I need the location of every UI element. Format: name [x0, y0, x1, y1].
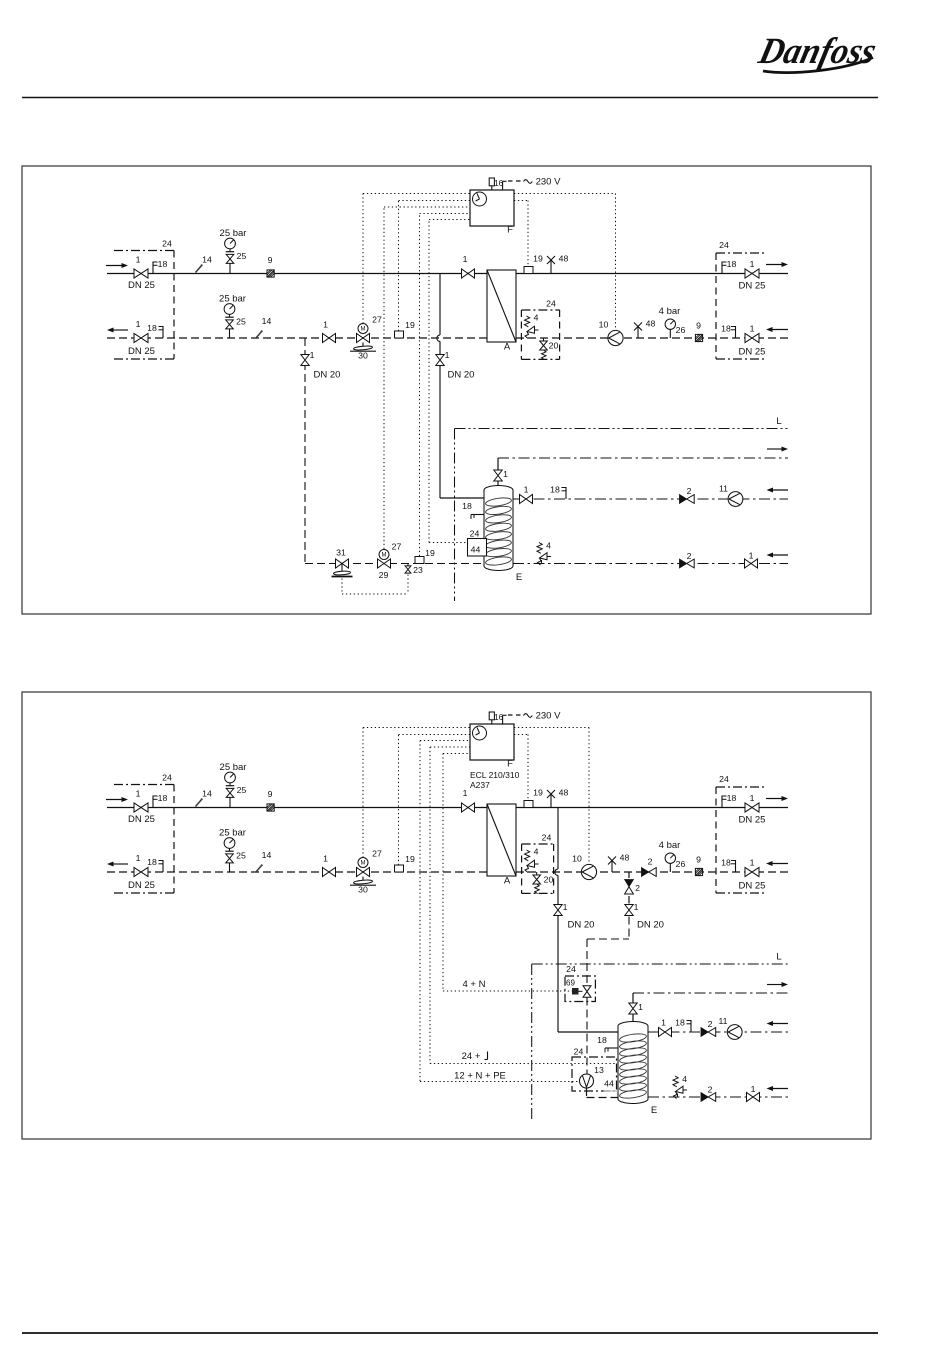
svg-text:69: 69 [566, 979, 575, 988]
svg-text:14: 14 [262, 850, 272, 860]
svg-text:48: 48 [620, 853, 630, 863]
svg-text:M: M [382, 553, 387, 559]
wire branch DN20 on return going down (dashed) [304, 338, 306, 564]
wire return pipe to district heating (dashed) [107, 337, 487, 339]
svg-text:A: A [504, 342, 511, 353]
wire controller to sensor 19 supply [514, 734, 528, 736]
sensor box 44 in tank [468, 539, 487, 557]
sensor 18 well on return (left) [162, 860, 164, 872]
svg-text:14: 14 [202, 255, 212, 265]
svg-text:12 + N + PE: 12 + N + PE [454, 1071, 506, 1082]
sensor 18 well on return (left) [162, 326, 164, 338]
svg-text:1: 1 [563, 902, 568, 912]
valve 1 DN 20 on return branch [301, 355, 309, 366]
svg-text:24: 24 [162, 239, 172, 249]
wire DHW circulation line (dash-dot) [648, 1031, 788, 1033]
mains connection bracket [502, 181, 504, 190]
pressure gauge 25 bar on return [224, 304, 235, 315]
svg-text:1: 1 [750, 324, 755, 334]
flow arrow circulation in [772, 1023, 789, 1025]
svg-text:9: 9 [268, 255, 273, 265]
svg-text:18: 18 [597, 1035, 607, 1045]
valve 1 on circulation [659, 1028, 672, 1037]
pressure gauge 26 4 bar on return [665, 853, 675, 863]
boundary box 24 right (dash-dot) [716, 252, 766, 254]
sensor 19 on return [395, 331, 404, 338]
valve 1 on circulation [520, 495, 533, 504]
motorised valve 27 on return [357, 868, 370, 877]
air vent 48 on return [611, 861, 613, 873]
sensor 18 well on supply (left) [152, 262, 154, 274]
svg-text:A: A [504, 876, 511, 887]
svg-text:A237: A237 [470, 780, 490, 790]
svg-text:1: 1 [661, 1018, 666, 1028]
wire return pipe after heat exchanger (dashed) [516, 337, 788, 339]
svg-text:10: 10 [599, 320, 609, 330]
svg-text:14: 14 [202, 789, 212, 799]
svg-text:DN 25: DN 25 [739, 347, 766, 358]
svg-text:19: 19 [405, 320, 415, 330]
wire supply pipe from district heating (flow) [107, 807, 487, 809]
svg-text:Danfoss: Danfoss [754, 30, 880, 71]
boundary box 24 right (dash-dot) [716, 786, 766, 788]
svg-text:1: 1 [323, 320, 328, 330]
wire controller to motor valve 29 [383, 207, 385, 549]
wire controller to motor valve 27 [362, 194, 364, 324]
boundary box 24 with thermostat 69 (dash-dot) [565, 976, 595, 1002]
flow arrow into return (right) [771, 863, 788, 865]
valve 1 return DN 25 (right) [745, 867, 759, 876]
wire supply pipe after heat exchanger [516, 807, 788, 809]
sensor 18 well on circulation [690, 1020, 692, 1032]
svg-text:2: 2 [708, 1085, 713, 1095]
filter 9 on return [695, 334, 702, 341]
svg-text:1: 1 [750, 858, 755, 868]
svg-text:27: 27 [372, 849, 382, 859]
svg-text:ECL 210/310: ECL 210/310 [470, 770, 520, 780]
svg-text:2: 2 [687, 551, 692, 561]
outdoor sensor 16 on controller [489, 178, 494, 186]
svg-text:24: 24 [719, 774, 729, 784]
svg-text:24: 24 [542, 833, 552, 843]
controller F (ECL regulator) [470, 190, 514, 226]
valve 1 on return (mid) [323, 334, 336, 343]
wire supply pipe after heat exchanger [516, 273, 788, 275]
sensor 18 well on return (right) [735, 860, 737, 872]
svg-text:24: 24 [470, 529, 480, 539]
Danfoss logo [754, 30, 880, 72]
svg-text:24: 24 [574, 1047, 584, 1057]
thermostat 69 [572, 988, 579, 995]
svg-text:26: 26 [676, 859, 686, 869]
svg-text:1: 1 [634, 902, 639, 912]
svg-text:E: E [651, 1105, 657, 1116]
valve 1 on cold water [747, 1093, 760, 1102]
node insulation mark 14 on supply [196, 265, 203, 273]
valve 1 return DN 25 (right) [745, 333, 759, 342]
drain cock 23 [407, 564, 409, 567]
relief valve 20 below return [536, 872, 538, 875]
wire controller to sensor 19 supply [514, 200, 528, 202]
filter 9 on supply [267, 804, 274, 811]
flow direction arrow out of return [112, 329, 128, 331]
wire dashed 230V supply [508, 714, 522, 716]
wire controller to pump 10 [514, 727, 589, 729]
svg-text:4: 4 [546, 541, 551, 551]
svg-text:13: 13 [594, 1065, 604, 1075]
svg-text:DN 25: DN 25 [128, 280, 155, 291]
svg-text:DN 25: DN 25 [739, 815, 766, 826]
svg-text:230 V: 230 V [536, 177, 561, 188]
boundary box 24 around safety valves (dash-dot) [522, 843, 554, 845]
wire capillary between 31 and 23 (dotted) [341, 579, 343, 595]
top rule [22, 97, 878, 99]
svg-text:25: 25 [236, 851, 246, 861]
pump 10 circulation pump on return [608, 330, 623, 345]
valve 1 on tank top [494, 470, 502, 481]
sensor 18 well on return (right) [735, 326, 737, 338]
wire tank top connection [497, 458, 499, 471]
svg-text:18: 18 [675, 1018, 685, 1028]
svg-text:11: 11 [718, 1016, 727, 1026]
check valve 2 on return [642, 868, 649, 877]
svg-text:1: 1 [463, 254, 468, 264]
sensor 18 pocket on tank [605, 1047, 618, 1049]
svg-text:20: 20 [549, 341, 559, 351]
svg-text:48: 48 [559, 788, 569, 798]
boundary box 24 around charging pump (dash-dot) [572, 1057, 617, 1091]
drain valve 31 [336, 559, 349, 568]
svg-text:18: 18 [727, 793, 737, 803]
pump 10 circulation pump on return [581, 864, 596, 879]
air vent 48 on supply [550, 260, 552, 274]
svg-text:25 bar: 25 bar [220, 762, 247, 773]
node insulation mark 14 on return [256, 331, 263, 339]
flow arrow out of supply (right) [766, 264, 783, 266]
motorised valve 29 on coil return [378, 559, 391, 568]
svg-text:4 bar: 4 bar [659, 306, 681, 317]
svg-text:18: 18 [721, 858, 731, 868]
svg-text:1: 1 [524, 485, 529, 495]
svg-text:1: 1 [136, 789, 141, 799]
wire controller to thermostat 69 (4+N) [443, 753, 470, 755]
storage tank E with heating coil [618, 1022, 648, 1104]
wire cold water line right of tank (dash-dot) [513, 563, 788, 565]
storage tank E with heating coil [484, 486, 513, 571]
sensor 19 on supply [524, 267, 533, 274]
svg-text:30: 30 [358, 885, 368, 895]
safety temperature monitor 30 below valve 27 [362, 877, 364, 881]
safety temperature monitor 30 below valve 27 [362, 343, 364, 347]
safety valve 4 on cold water [537, 543, 542, 554]
wire controller to motor valve 27 [362, 728, 364, 858]
flow arrow out of supply (right) [766, 798, 783, 800]
wire return pipe after heat exchanger (dashed) [516, 871, 788, 873]
check valve 2 on circulation [701, 1028, 708, 1037]
svg-text:1: 1 [749, 551, 754, 561]
svg-text:DN 25: DN 25 [739, 281, 766, 292]
svg-text:2: 2 [635, 883, 640, 893]
svg-text:19: 19 [533, 788, 543, 798]
svg-text:4: 4 [534, 847, 539, 857]
wire cold water line (dash-dot) [648, 1096, 788, 1098]
pump 13 charging pump [580, 1074, 594, 1088]
safety valve 4 in box [525, 316, 530, 327]
valve 1 on cold water [745, 559, 758, 568]
svg-text:1: 1 [310, 350, 315, 360]
svg-text:F: F [507, 225, 513, 236]
svg-text:19: 19 [425, 548, 435, 558]
flow arrow DHW out [767, 984, 783, 986]
svg-text:4: 4 [534, 313, 539, 323]
svg-text:1: 1 [750, 259, 755, 269]
wire controller to tank sensor 44 [428, 220, 430, 543]
node system limit L line (dash-dot-dot) [455, 428, 789, 430]
safety valve 4 in box [525, 850, 530, 861]
wire DHW flow line (dash-dot) [498, 457, 788, 459]
wire DHW flow line (dash-dot) [633, 992, 788, 994]
svg-text:1: 1 [638, 1002, 643, 1012]
svg-text:DN 25: DN 25 [739, 881, 766, 892]
flow direction arrow out of return [112, 863, 128, 865]
sensor 18 pocket on tank [471, 514, 484, 516]
pressure gauge 25 bar on return [224, 838, 235, 849]
wire charging return branch (dashed) [628, 872, 630, 878]
AC symbol [524, 714, 533, 718]
svg-text:1: 1 [323, 854, 328, 864]
wire DHW circulation line (dash-dot) [513, 498, 788, 500]
svg-text:25: 25 [236, 317, 246, 327]
svg-text:1: 1 [136, 255, 141, 265]
svg-text:23: 23 [413, 565, 423, 575]
valve 1 on supply before exchanger [462, 803, 475, 812]
flow direction arrow into supply [106, 265, 123, 267]
svg-text:1: 1 [503, 469, 508, 479]
pump 11 circulation pump [728, 492, 743, 507]
svg-text:48: 48 [559, 254, 569, 264]
wire controller to sensor 19 return [398, 201, 400, 332]
svg-text:9: 9 [268, 789, 273, 799]
svg-text:4 bar: 4 bar [659, 840, 681, 851]
valve 1 DN 20 on tank feed [436, 355, 444, 366]
svg-text:25: 25 [237, 785, 247, 795]
svg-text:11: 11 [719, 484, 728, 494]
wire dashed 230V supply [508, 180, 522, 182]
svg-text:M: M [361, 327, 366, 333]
frame box diagram 1 [22, 166, 871, 614]
svg-text:2: 2 [648, 857, 653, 867]
pressure gauge 25 bar on supply [225, 238, 236, 249]
wire controller to sensor 44 (24+earth) [430, 746, 470, 748]
svg-text:27: 27 [392, 542, 402, 552]
svg-text:25 bar: 25 bar [219, 294, 246, 305]
svg-text:1: 1 [445, 350, 450, 360]
svg-text:18: 18 [721, 324, 731, 334]
valve 1 return DN 25 (left) [134, 867, 148, 876]
svg-text:4 + N: 4 + N [463, 979, 486, 990]
svg-text:24: 24 [566, 964, 576, 974]
svg-text:30: 30 [358, 351, 368, 361]
svg-text:18: 18 [147, 323, 157, 333]
sensor 18 well on supply (right) [721, 796, 723, 808]
svg-text:19: 19 [405, 854, 415, 864]
svg-text:18: 18 [550, 485, 560, 495]
svg-text:29: 29 [379, 570, 389, 580]
svg-text:26: 26 [676, 325, 686, 335]
valve 1 DN 20 on charging feed [554, 905, 562, 916]
wire controller to pump 10 [514, 193, 616, 195]
node system limit L line (dash-dot-dot) [532, 963, 788, 965]
check valve 2 on cold water [680, 559, 687, 568]
svg-text:10: 10 [572, 854, 582, 864]
air vent 48 on return [637, 327, 639, 339]
wire pump 13 to tank bottom (dashed) [586, 1088, 588, 1098]
heat exchanger A [487, 804, 516, 876]
node insulation mark 14 on return [256, 865, 263, 873]
svg-text:1: 1 [136, 853, 141, 863]
filter 9 on supply [267, 270, 274, 277]
svg-text:DN 20: DN 20 [314, 370, 341, 381]
svg-text:24: 24 [546, 299, 556, 309]
flow arrow circulation in [772, 489, 789, 491]
svg-text:18: 18 [158, 259, 168, 269]
svg-text:L: L [776, 952, 781, 963]
sensor 18 well on supply (left) [152, 796, 154, 808]
svg-text:DN 20: DN 20 [448, 370, 475, 381]
svg-text:E: E [516, 572, 522, 583]
wire tank top connection [632, 993, 634, 1004]
valve 1 DN 20 on charging return [625, 905, 633, 916]
bottom rule [22, 1332, 878, 1334]
pump 11 circulation pump [727, 1025, 742, 1040]
svg-text:9: 9 [696, 321, 701, 331]
svg-text:20: 20 [544, 875, 554, 885]
controller F (ECL regulator) [470, 724, 514, 760]
valve 1 supply DN 25 (left) [134, 803, 148, 812]
svg-text:2: 2 [708, 1019, 713, 1029]
svg-text:M: M [361, 861, 366, 867]
svg-text:DN 25: DN 25 [128, 880, 155, 891]
valve 1 supply DN 25 (right) [745, 269, 759, 278]
valve 1 supply DN 25 (right) [745, 803, 759, 812]
pressure gauge 26 4 bar on return [665, 319, 675, 329]
svg-text:44: 44 [604, 1079, 614, 1089]
svg-text:25: 25 [237, 251, 247, 261]
svg-text:24 +: 24 + [462, 1051, 481, 1062]
svg-text:DN 25: DN 25 [128, 814, 155, 825]
valve 1 on supply before exchanger [462, 269, 475, 278]
flow direction arrow into supply [106, 799, 123, 801]
svg-text:1: 1 [136, 319, 141, 329]
svg-text:4: 4 [682, 1074, 687, 1084]
flow arrow DHW out [767, 448, 783, 450]
svg-text:18: 18 [727, 259, 737, 269]
relief valve 20 below return [543, 338, 545, 341]
svg-text:14: 14 [262, 316, 272, 326]
safety valve 4 on cold water [673, 1076, 678, 1087]
outdoor sensor 16 on controller [489, 712, 494, 720]
sensor 19 on coil return [415, 557, 424, 564]
sensor 18 well on supply (right) [721, 262, 723, 274]
svg-text:19: 19 [533, 254, 543, 264]
wire controller to pump 13 (12+N+PE) [420, 740, 470, 742]
svg-text:44: 44 [471, 545, 481, 555]
svg-text:L: L [776, 416, 781, 427]
valve 1 return DN 25 (left) [134, 333, 148, 342]
sensor 44 pocket (grey) [604, 1090, 619, 1092]
AC symbol [524, 180, 533, 184]
check valve 2 on charging return [625, 880, 634, 887]
svg-text:DN 20: DN 20 [637, 920, 664, 931]
drain outlet below valve 31 [341, 564, 343, 572]
svg-text:230 V: 230 V [536, 711, 561, 722]
wire controller to sensor 19 coil return [419, 214, 421, 557]
air vent 48 on supply [550, 794, 552, 808]
svg-text:1: 1 [751, 1084, 756, 1094]
sensor 19 on supply [524, 801, 533, 808]
flow arrow into return (right) [771, 329, 788, 331]
valve 1 supply DN 25 (left) [134, 269, 148, 278]
valve 1 on return (mid) [323, 868, 336, 877]
svg-text:9: 9 [696, 855, 701, 865]
filter 9 on return [695, 868, 702, 875]
svg-text:2: 2 [687, 486, 692, 496]
wire primary feed to tank coil (solid) [439, 274, 441, 336]
svg-text:25 bar: 25 bar [220, 228, 247, 239]
node insulation mark 14 on supply [196, 799, 203, 807]
svg-text:18: 18 [158, 793, 168, 803]
svg-text:DN 20: DN 20 [568, 920, 595, 931]
svg-text:1: 1 [750, 793, 755, 803]
svg-text:27: 27 [372, 315, 382, 325]
wire coil return line (dashed) [305, 563, 484, 565]
boundary box 24 around safety valves (dash-dot) [521, 309, 559, 311]
svg-text:24: 24 [719, 240, 729, 250]
check valve 2 on cold water [701, 1093, 708, 1102]
svg-text:48: 48 [646, 319, 656, 329]
wire return pipe to district heating (dashed) [107, 871, 487, 873]
svg-text:DN 25: DN 25 [128, 346, 155, 357]
wire controller to sensor 19 return [398, 735, 400, 866]
mains connection bracket [502, 715, 504, 724]
frame box diagram 2 [22, 692, 871, 1139]
motorised valve 27 on return [357, 334, 370, 343]
pressure gauge 25 bar on supply [225, 772, 236, 783]
sensor 19 on return [395, 865, 404, 872]
check valve 2 on circulation [680, 495, 687, 504]
valve on charging return in box 69 [583, 986, 591, 998]
svg-text:18: 18 [147, 857, 157, 867]
svg-text:F: F [507, 759, 513, 770]
boundary box 24 left (dash-dot) [114, 784, 174, 786]
wire supply pipe from district heating (flow) [107, 273, 487, 275]
svg-text:24: 24 [162, 773, 172, 783]
svg-text:31: 31 [336, 548, 346, 558]
svg-text:25 bar: 25 bar [219, 828, 246, 839]
heat exchanger A [487, 270, 516, 342]
svg-text:18: 18 [462, 501, 472, 511]
boundary box 24 left (dash-dot) [114, 250, 174, 252]
sensor 18 well on circulation [565, 487, 567, 499]
svg-text:1: 1 [463, 788, 468, 798]
wire primary feed to charging circuit (solid) [557, 808, 559, 870]
flow arrow cold water in [772, 554, 789, 556]
flow arrow cold water in [772, 1088, 789, 1090]
valve 1 on tank top [629, 1003, 637, 1014]
